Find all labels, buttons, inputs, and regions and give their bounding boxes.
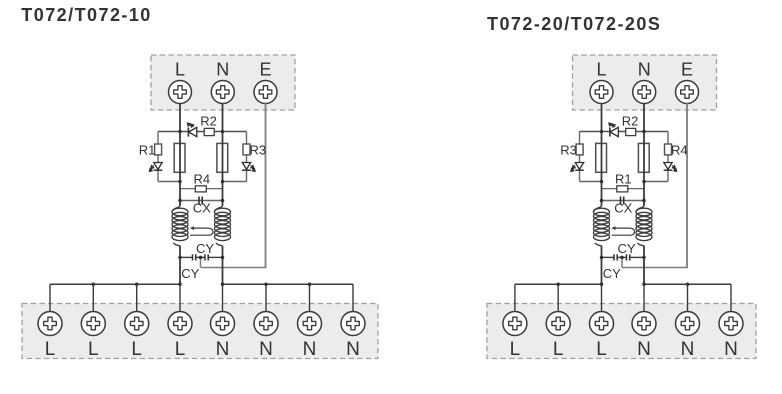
svg-text:L: L	[596, 339, 607, 360]
svg-text:CY: CY	[617, 241, 635, 256]
svg-text:R2: R2	[622, 114, 639, 129]
svg-text:L: L	[175, 60, 185, 80]
svg-text:R3: R3	[560, 143, 577, 158]
svg-text:R4: R4	[193, 172, 210, 187]
svg-text:R1: R1	[139, 143, 156, 158]
svg-text:N: N	[681, 339, 695, 360]
svg-text:CY: CY	[181, 266, 199, 281]
svg-text:CX: CX	[193, 200, 211, 215]
svg-text:E: E	[259, 60, 271, 80]
svg-text:N: N	[303, 339, 317, 360]
svg-text:CY: CY	[196, 241, 214, 256]
svg-text:E: E	[681, 60, 693, 80]
svg-text:L: L	[510, 339, 521, 360]
svg-text:R1: R1	[615, 172, 632, 187]
svg-text:L: L	[596, 60, 606, 80]
svg-text:T072-20/T072-20S: T072-20/T072-20S	[487, 14, 661, 34]
svg-text:L: L	[88, 339, 99, 360]
svg-text:CY: CY	[603, 266, 621, 281]
svg-text:N: N	[346, 339, 360, 360]
svg-text:L: L	[131, 339, 142, 360]
svg-text:N: N	[637, 339, 651, 360]
svg-text:L: L	[45, 339, 56, 360]
svg-text:R4: R4	[671, 143, 688, 158]
svg-text:L: L	[553, 339, 564, 360]
svg-text:R2: R2	[200, 114, 217, 129]
svg-text:N: N	[216, 60, 229, 80]
svg-text:N: N	[724, 339, 738, 360]
svg-text:N: N	[638, 60, 651, 80]
svg-text:T072/T072-10: T072/T072-10	[21, 5, 151, 25]
svg-text:CX: CX	[614, 200, 632, 215]
svg-text:R3: R3	[249, 143, 266, 158]
svg-text:N: N	[259, 339, 273, 360]
svg-text:L: L	[175, 339, 186, 360]
svg-text:N: N	[216, 339, 230, 360]
